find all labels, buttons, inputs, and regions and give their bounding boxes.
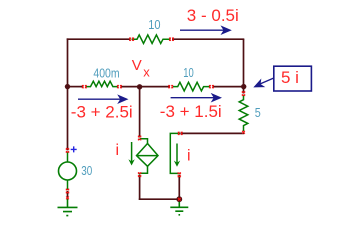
wire right vertical <box>243 39 245 93</box>
svg-text:V: V <box>132 57 142 74</box>
svg-text:5 i: 5 i <box>281 68 299 87</box>
arrow for -3 + 2.5i <box>78 94 129 104</box>
wire top-left vertical <box>67 38 69 150</box>
wire source bottom to ground <box>67 191 69 198</box>
wire middle right (R2 pin to node B) <box>213 86 244 88</box>
green arrow i (right branch) <box>174 144 180 167</box>
pin mark ground left <box>66 197 69 200</box>
pin marks dependent source bottom <box>138 172 141 176</box>
pin marks bracket bottom <box>178 173 181 177</box>
pin marks R3 right <box>117 85 121 88</box>
arrow for 3 - 0.5i <box>180 25 232 35</box>
junction node bottom rail <box>176 196 182 202</box>
wire top horizontal left segment <box>67 38 131 40</box>
svg-text:30: 30 <box>81 163 92 178</box>
arrow from box 5 i to node B <box>251 78 273 92</box>
svg-text:x: x <box>143 65 150 80</box>
pin marks source V1 bottom <box>66 189 69 193</box>
pin marks R3 left <box>82 85 86 88</box>
current label i (right branch) <box>187 148 191 165</box>
green arrow i (left of dependent source) <box>128 142 134 166</box>
callout box 5 i <box>274 66 312 91</box>
wire bottom rail <box>139 198 180 200</box>
voltage source V1 circle <box>59 152 77 191</box>
pin mark bottom rail junction <box>178 198 181 201</box>
ground left <box>58 199 78 216</box>
pin marks R1 right <box>169 38 173 41</box>
svg-text:i: i <box>187 148 191 165</box>
svg-text:5: 5 <box>255 105 261 120</box>
pin marks R1 left <box>129 38 133 41</box>
svg-text:10: 10 <box>183 66 194 80</box>
wire node Vx down to dependent source <box>139 87 141 138</box>
wire top horizontal right segment <box>172 38 244 40</box>
pin marks R2 right <box>209 85 213 88</box>
resistor R2 10 (middle) <box>173 82 210 91</box>
pin marks R4 top <box>242 91 245 95</box>
svg-text:10: 10 <box>148 18 160 32</box>
pin marks R2 left <box>169 85 173 88</box>
junction node A (left) <box>65 84 70 89</box>
svg-text:i: i <box>116 142 120 159</box>
junction node B (right) <box>241 84 246 89</box>
wire middle left (node A to 400m pin) <box>68 86 84 88</box>
current label i (left of dependent source) <box>116 142 120 159</box>
label 400m of R3 <box>93 66 119 80</box>
pin mark R4 bottom <box>242 131 245 134</box>
svg-text:-3 + 2.5i: -3 + 2.5i <box>71 102 133 121</box>
svg-text:400m: 400m <box>93 66 119 80</box>
wire middle center (400m pin through node Vx to R2 pin) <box>121 86 170 88</box>
dependent current source U1 diamond <box>137 139 159 175</box>
green bracket wire right branch (current path) <box>170 133 180 174</box>
plus sign of source V1 <box>71 146 77 152</box>
svg-text:-3 + 1.5i: -3 + 1.5i <box>160 102 222 121</box>
ground middle <box>170 199 188 215</box>
wire right branch down <box>178 175 180 200</box>
label 30 of V1 <box>81 163 92 178</box>
junction node Vx <box>137 84 142 89</box>
svg-text:3 - 0.5i: 3 - 0.5i <box>187 6 239 25</box>
resistor R4 5 (right vertical) <box>239 95 248 131</box>
pin marks bracket top <box>178 132 182 135</box>
pin marks source V1 top <box>66 148 69 152</box>
arrow for -3 + 1.5i <box>171 93 222 103</box>
label 5 of R4 <box>255 105 261 120</box>
resistor R1 10 (top) <box>132 35 171 44</box>
current label -3 + 2.5i <box>71 102 133 121</box>
wire right loop horizontal <box>180 132 244 133</box>
label 10 of R2 <box>183 66 194 80</box>
pin marks dependent source top <box>138 136 141 140</box>
wire dependent source down <box>139 175 141 200</box>
resistor R3 400m (middle left, bump style) <box>86 81 119 86</box>
current label 3 - 0.5i <box>187 6 239 25</box>
current label -3 + 1.5i <box>160 102 222 121</box>
label 10 of R1 <box>148 18 160 32</box>
node label Vx <box>132 57 151 80</box>
